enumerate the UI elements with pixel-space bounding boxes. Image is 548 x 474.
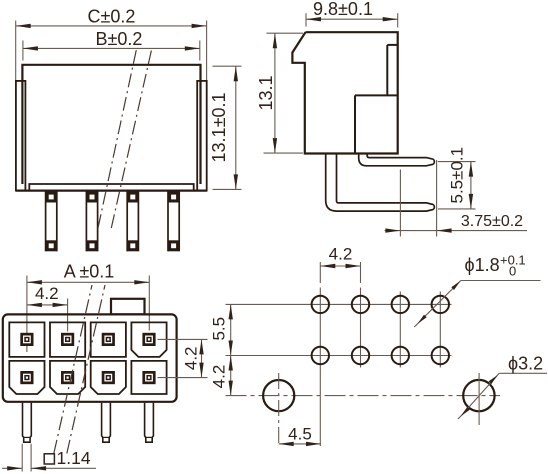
svg-text:9.8±0.1: 9.8±0.1 [313, 0, 373, 19]
svg-text:13.1: 13.1 [256, 75, 276, 110]
top view: pin contact row1 col1 [20, 333, 33, 346]
top view: pin contact row1 col4 [142, 333, 155, 346]
front view: left mounting flange [16, 81, 26, 191]
svg-text:B±0.2: B±0.2 [96, 29, 143, 49]
pcb layout: hole phi1.8 row2 col1 [312, 347, 329, 364]
top view: break lines [54, 285, 92, 454]
side view: dimension 3.75±0.2 [399, 170, 401, 237]
svg-text:1.14: 1.14 [57, 448, 91, 468]
top view: cavity row2 col3 [91, 361, 126, 394]
top view: cavity row1 col3 [91, 322, 126, 357]
front view: connector body outline [22, 65, 200, 184]
top view: body outline [3, 314, 177, 401]
top view: cavity row2 col1 [9, 361, 44, 394]
top view: pin contact row2 col1 [20, 371, 33, 384]
front view: pin 4 with retention pads [167, 191, 169, 252]
top view: solder leg 3 [102, 403, 111, 443]
svg-text:4.5: 4.5 [288, 425, 312, 444]
pcb layout: big hole phi3.2 left [263, 380, 294, 411]
top view: pin contact row1 col2 [61, 333, 74, 346]
front view: bottom rim [29, 184, 193, 190]
pcb layout: column centerlines [319, 288, 321, 447]
pcb layout: hole phi1.8 row1 col1 [312, 296, 329, 313]
top view: dimension 4.2 pitch [67, 299, 69, 332]
pcb layout: dimension 4.2 row spacing [230, 356, 232, 396]
top view: dimension A±0.1 [26, 276, 28, 353]
front view: dimension C±0.2 [15, 21, 17, 81]
svg-text:4.2: 4.2 [210, 365, 229, 389]
pcb layout: row centerlines [226, 303, 452, 305]
pcb layout: dimension 4.5 [279, 443, 321, 445]
side view: dimension 5.5±0.1 [438, 161, 476, 163]
svg-text:4.2: 4.2 [35, 284, 59, 303]
top view: dimension 4.2 row spacing [158, 338, 208, 340]
top view: pin contact row2 col2 [61, 371, 74, 384]
top view: cavity row2 col4 [131, 361, 166, 394]
svg-text:5.5±0.1: 5.5±0.1 [448, 147, 467, 204]
svg-text:0: 0 [509, 264, 516, 279]
pcb layout: hole phi1.8 row2 col4 [432, 347, 449, 364]
front view: pin 1 with retention pads [45, 191, 47, 252]
pcb layout: dimension 5.5 row spacing [230, 304, 232, 355]
top view: polarization tab [111, 299, 145, 315]
side view: dimension 9.8±0.1 [305, 13, 307, 26]
front view: right mounting flange [197, 81, 207, 191]
pcb layout: big hole centerline [226, 395, 501, 397]
pcb layout: label phi3.2 with leader [461, 373, 500, 416]
pcb layout: dimension 4.2 hole pitch [319, 262, 321, 283]
top view: cavity row1 col1 [9, 322, 44, 357]
svg-text:13.1±0.1: 13.1±0.1 [209, 93, 229, 163]
front view: dimension B±0.2 [22, 41, 24, 61]
side view: upper bent pin [359, 154, 435, 166]
front view: break lines [98, 50, 136, 229]
side view: body outline with latch [292, 32, 397, 153]
svg-text:A ±0.1: A ±0.1 [64, 262, 115, 282]
pcb layout: hole phi1.8 row1 col2 [352, 296, 369, 313]
svg-text:5.5: 5.5 [210, 317, 229, 341]
top view: solder leg 4 [145, 403, 154, 443]
top view: cavity row1 col4 [131, 322, 166, 357]
side view: inner edge lines [386, 45, 388, 96]
top view: solder leg 1 [23, 403, 32, 443]
svg-text:ϕ3.2: ϕ3.2 [508, 354, 543, 374]
pcb layout: hole phi1.8 row2 col2 [352, 347, 369, 364]
svg-text:C±0.2: C±0.2 [88, 7, 136, 27]
side view: dimension 13.1 [267, 32, 304, 34]
pcb layout: big hole phi3.2 right [463, 380, 494, 411]
pcb layout: hole phi1.8 row1 col4 [432, 296, 449, 313]
pcb layout: hole phi1.8 row1 col3 [392, 296, 409, 313]
side view: lower bent pin [326, 154, 435, 212]
pcb layout: hole phi1.8 row2 col3 [392, 347, 409, 364]
top view: dimension □1.14 [21, 444, 23, 472]
top view: pin contact row1 col3 [102, 333, 115, 346]
svg-text:ϕ1.8: ϕ1.8 [465, 255, 500, 275]
svg-text:4.2: 4.2 [329, 245, 353, 264]
top view: pin contact row2 col3 [102, 371, 115, 384]
front view: pin 2 with retention pads [85, 191, 87, 252]
svg-text:4.2: 4.2 [182, 346, 201, 370]
top view: pin contact row2 col4 [142, 371, 155, 384]
top view: cavity row2 col2 [50, 361, 85, 394]
pcb layout: label phi1.8 +0.1/0 with leader [418, 281, 461, 324]
front view: dimension 13.1±0.1 [213, 65, 242, 67]
svg-text:3.75±0.2: 3.75±0.2 [461, 213, 523, 230]
front view: pin 3 with retention pads [126, 191, 128, 252]
top view: cavity row1 col2 [50, 322, 85, 357]
